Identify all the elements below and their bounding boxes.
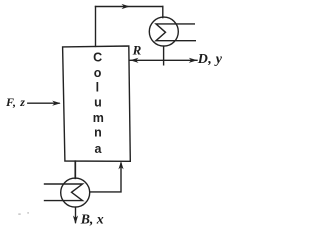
svg-text:R: R — [132, 43, 142, 58]
arrowhead on overhead line — [122, 4, 131, 9]
column vessel rectangle — [63, 46, 131, 161]
svg-text:u: u — [94, 96, 102, 110]
svg-text:m: m — [93, 111, 104, 125]
arrowhead boilup into column — [118, 161, 123, 169]
wire: overhead line to condenser — [96, 6, 163, 8]
column name text "Columna" vertical — [93, 51, 104, 157]
svg-text:a: a — [95, 142, 103, 156]
wire: reflux / distillate horizontal line — [130, 59, 197, 61]
wire: bottoms downcomer to reboiler — [74, 161, 76, 178]
arrowhead distillate D — [189, 58, 198, 63]
wire: vapor riser from column top — [95, 7, 97, 47]
reboiler coil with steam lines — [45, 184, 83, 201]
wire: condenser outlet to distillate line — [163, 46, 165, 65]
arrowhead reflux into column — [130, 58, 139, 63]
svg-text:n: n — [94, 126, 102, 140]
arrowhead feed into column — [52, 101, 61, 106]
wire: feed line — [28, 102, 59, 104]
svg-text:l: l — [96, 80, 99, 94]
wire: condenser inlet drop — [162, 7, 164, 18]
reboiler circle — [61, 178, 90, 207]
svg-text:B, x: B, x — [80, 212, 104, 227]
svg-text:o: o — [94, 66, 102, 80]
condenser circle — [149, 17, 178, 46]
wire: bottoms product line — [75, 207, 77, 222]
svg-text:C: C — [93, 51, 102, 65]
svg-text:D, y: D, y — [197, 52, 223, 67]
speckle noise dots — [18, 212, 29, 215]
arrowhead bottoms product — [73, 216, 78, 225]
wire: boilup vapor return line — [90, 163, 121, 192]
svg-text:F, z: F, z — [5, 95, 26, 109]
condenser coil with coolant lines — [156, 24, 195, 41]
